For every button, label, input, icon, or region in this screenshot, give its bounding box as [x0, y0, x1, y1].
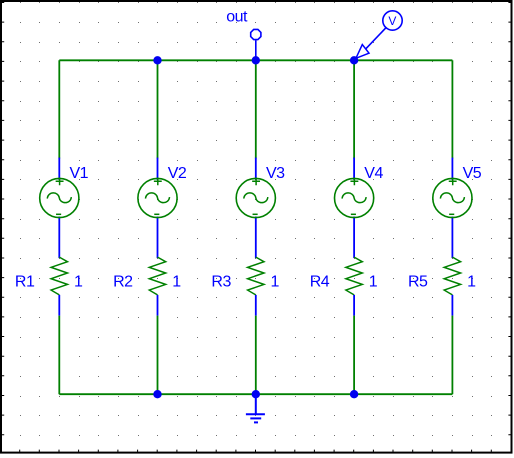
- resistor R3: [211, 257, 279, 316]
- resistor R4: [310, 257, 378, 316]
- wire top rail: [59, 59, 452, 61]
- wire branch 5 lower segment: [451, 316, 453, 395]
- resistor R5: [408, 257, 476, 316]
- svg-text:V5: V5: [463, 165, 482, 182]
- resistor R1: [15, 257, 83, 316]
- svg-text:1: 1: [271, 273, 280, 290]
- wire bottom rail: [59, 393, 452, 395]
- voltage source V3: [236, 159, 285, 258]
- wire branch 1 lower segment: [58, 316, 60, 395]
- wire branch 1 upper segment: [58, 60, 60, 158]
- svg-text:1: 1: [467, 273, 476, 290]
- voltage source V1: [40, 159, 89, 258]
- resistor R2: [113, 257, 181, 316]
- svg-text:V3: V3: [266, 165, 285, 182]
- svg-text:V1: V1: [70, 165, 89, 182]
- wire branch 5 upper segment: [451, 60, 453, 158]
- wire branch 4 lower segment: [353, 316, 355, 395]
- svg-text:R2: R2: [113, 273, 133, 290]
- svg-text:R1: R1: [15, 273, 35, 290]
- voltage source V2: [138, 159, 187, 258]
- voltage source V5: [433, 159, 482, 258]
- voltage source V4: [335, 159, 384, 258]
- svg-text:R4: R4: [310, 273, 330, 290]
- svg-text:V: V: [388, 14, 396, 28]
- svg-text:V4: V4: [364, 165, 383, 182]
- svg-text:R5: R5: [408, 273, 428, 290]
- wire branch 3 upper segment: [255, 60, 257, 158]
- svg-text:1: 1: [172, 273, 181, 290]
- svg-text:R3: R3: [211, 273, 231, 290]
- node junction bottom D: [350, 390, 358, 398]
- svg-text:out: out: [226, 8, 248, 25]
- node junction top B: [153, 56, 161, 64]
- wire branch 2 upper segment: [157, 60, 159, 158]
- node out junction: [252, 56, 260, 64]
- node ground junction: [252, 390, 260, 398]
- wire branch 3 lower segment: [255, 316, 257, 395]
- wire branch 2 lower segment: [157, 316, 159, 395]
- node junction bottom B: [153, 390, 161, 398]
- voltage probe V: [356, 11, 402, 59]
- svg-text:1: 1: [369, 273, 378, 290]
- ground: [246, 394, 265, 422]
- svg-text:V2: V2: [168, 165, 187, 182]
- node junction top D: [350, 56, 358, 64]
- svg-text:1: 1: [74, 273, 83, 290]
- node out terminal: [226, 8, 261, 57]
- wire branch 4 upper segment: [353, 60, 355, 158]
